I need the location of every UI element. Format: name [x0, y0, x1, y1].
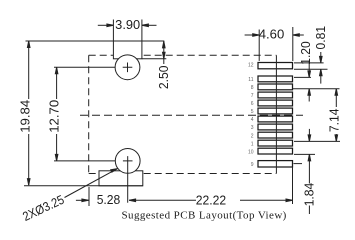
dim 19.84 dimension line [28, 41, 30, 99]
svg-text:Suggested PCB Layout(Top View): Suggested PCB Layout(Top View) [122, 210, 287, 222]
dim 12.70 bottom extension line [54, 160, 116, 162]
right extension line 1.84 bottom [294, 153, 315, 155]
svg-text:12.70: 12.70 [47, 100, 62, 133]
svg-text:1: 1 [251, 141, 254, 147]
right extension line pad11 top [294, 76, 311, 78]
dim 12.70 dimension line [56, 67, 58, 99]
board bottom edge line [24, 185, 143, 187]
leader line for 2X3.25 [65, 169, 118, 198]
connector body outline dashed left edge [88, 55, 90, 173]
svg-text:10: 10 [248, 149, 254, 155]
right extension line 7.14 bottom / 1.84 top [294, 140, 340, 142]
pad 4 [258, 116, 293, 122]
svg-text:1.84: 1.84 [302, 183, 317, 207]
connector body outline dashed bottom edge [89, 173, 277, 175]
dim 4.60 left extension line [258, 30, 260, 61]
dim 4.60 left arrow [245, 34, 260, 36]
pad 3 [258, 124, 293, 130]
dim 2.50 extension line from tab corner [142, 58, 166, 60]
svg-text:12: 12 [248, 63, 254, 69]
dim 22.22 line right segment and arrow [240, 199, 293, 201]
body right edge over pads [275, 55, 277, 173]
dim 0.81 upper arrow [320, 52, 322, 63]
dim 1.20 line and arrow [308, 61, 310, 78]
mounting hole bottom circle [115, 149, 140, 174]
right extension line pad8 center (7.14 top) [293, 88, 340, 90]
board top edge line [26, 40, 165, 42]
right extension stub pad9 [294, 163, 303, 165]
dim 5.28 left extension tick [88, 187, 90, 206]
right extension line pad12 top [294, 62, 324, 64]
dim 7.14 dimension line bottom segment [335, 134, 337, 141]
connector body outline dashed top edge [89, 54, 277, 56]
pad 11 [258, 76, 293, 82]
mounting hole top circle [115, 55, 140, 80]
dim 0.81 lower arrow [320, 69, 322, 83]
pad 8 [258, 84, 293, 90]
dim 1.84 lower arrow and line through text [308, 154, 310, 183]
svg-text:7: 7 [251, 93, 254, 99]
svg-text:2: 2 [251, 133, 254, 139]
svg-text:3.90: 3.90 [115, 17, 140, 32]
svg-text:6: 6 [251, 101, 254, 107]
svg-text:9: 9 [251, 162, 254, 168]
svg-text:7.14: 7.14 [327, 108, 342, 132]
dim 1.20 lower arrow pointing up at 7.14 top ext [308, 89, 310, 102]
dim 22.22 right extension line [292, 167, 294, 204]
svg-text:19.84: 19.84 [18, 100, 33, 133]
dim 4.60 right extension line [292, 27, 294, 61]
svg-text:5.28: 5.28 [97, 192, 121, 207]
svg-text:22.22: 22.22 [196, 193, 226, 208]
dim 4.60 right arrow [293, 34, 304, 36]
dim 1.84 upper arrow [308, 129, 310, 142]
pad 1 [258, 140, 293, 146]
bottom tab pad [99, 171, 143, 186]
svg-text:5: 5 [251, 109, 254, 115]
dim 3.90 right extension line [141, 20, 143, 42]
svg-text:0.81: 0.81 [313, 26, 328, 50]
svg-text:4: 4 [251, 117, 254, 123]
dim 5.28 left outside arrow [76, 199, 89, 201]
top hole crosshair [123, 63, 133, 73]
dim 3.90 left extension line [112, 20, 114, 42]
pad 12 [258, 63, 293, 69]
svg-text:8: 8 [251, 85, 254, 91]
body centerline dashed mid line [80, 114, 303, 116]
svg-text:11: 11 [248, 77, 253, 83]
pad 5 [258, 108, 293, 114]
pad 6 [258, 100, 293, 106]
svg-text:1.20: 1.20 [298, 41, 313, 65]
dim 2.50 dimension line with arrows [163, 41, 165, 64]
svg-text:3: 3 [251, 125, 254, 131]
dim 3.90 left arrow [98, 24, 114, 26]
top tab pad [113, 41, 141, 59]
dim 22.22 left arrow at hole centerline [129, 199, 196, 201]
svg-text:2.50: 2.50 [156, 66, 171, 90]
pad 2 [258, 132, 293, 138]
bottom hole centerline extended down [127, 166, 129, 203]
pad 10 [258, 148, 293, 154]
bottom hole crosshair [123, 156, 133, 166]
svg-text:4.60: 4.60 [259, 27, 285, 42]
pad 9 [258, 161, 293, 167]
pad 7 [258, 92, 293, 98]
dim 7.14 dimension line top segment [335, 89, 337, 107]
right extension line pad12 bottom [294, 68, 328, 70]
dim 3.90 right arrow [142, 24, 157, 26]
dim 12.70 top extension line [54, 66, 115, 68]
